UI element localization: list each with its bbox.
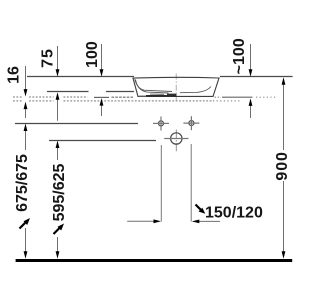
node rim reference line left <box>27 76 134 78</box>
dimension 16 <box>25 66 27 118</box>
dimension 100 <box>101 44 103 116</box>
wire extension line from hole A <box>160 145 162 222</box>
dimension 595/625 <box>57 147 59 253</box>
leader arrow for 150/120 <box>196 205 206 214</box>
wire extension line from hole B <box>190 144 192 222</box>
node centerline of basin <box>175 74 177 152</box>
floor line <box>16 259 293 262</box>
node rim reference line right <box>220 76 293 78</box>
node 75mm reference line <box>47 91 89 93</box>
svg-text:~100: ~100 <box>231 38 248 74</box>
washbasin drain <box>139 96 147 97</box>
svg-text:100: 100 <box>84 41 101 68</box>
leader arrow for 675/675 <box>20 218 31 229</box>
washbasin inner bowl curves <box>135 79 211 94</box>
svg-text:16: 16 <box>6 66 23 84</box>
wire dotted countertop bottom row <box>13 100 240 102</box>
faucet hole B <box>183 116 199 130</box>
dimension 675/675 <box>25 130 27 253</box>
svg-text:675/675: 675/675 <box>14 154 31 212</box>
dimension 900 <box>283 84 285 254</box>
drain hole C <box>164 133 188 144</box>
leader arrow for 595/625 <box>54 224 65 235</box>
dimension 75 <box>57 46 59 121</box>
dimension ~100 <box>250 44 252 118</box>
washbasin outline <box>133 77 219 96</box>
svg-text:150/120: 150/120 <box>205 205 263 222</box>
node 675 reference line <box>15 123 138 125</box>
svg-text:900: 900 <box>274 151 291 180</box>
svg-text:595/625: 595/625 <box>51 163 68 221</box>
dimension 150/120 horizontal arrows <box>127 220 154 222</box>
faucet hole A <box>153 117 169 131</box>
svg-text:75: 75 <box>39 48 56 68</box>
wire dotted countertop top row <box>13 96 277 98</box>
node 595 reference line <box>49 140 156 142</box>
